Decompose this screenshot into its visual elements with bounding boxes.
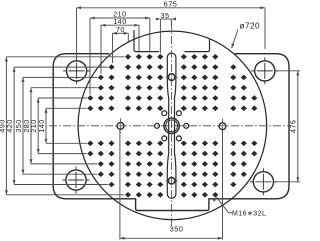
dimension 350 left (23, 77, 97, 174)
dimension 140 top-left (101, 25, 139, 74)
dimension 210 top-left (90, 18, 150, 95)
dimension 420 left (14, 67, 108, 184)
svg-text:ø720: ø720 (240, 22, 260, 31)
dimension 675 top (77, 8, 266, 62)
platen plate outline (rounded rectangle with bottom step, top trimmed by circle) (53, 54, 289, 211)
svg-text:675: 675 (164, 0, 178, 9)
label dia 720 with leader (232, 30, 238, 49)
dimension 490 left (6, 57, 124, 195)
top slot hole (168, 74, 175, 81)
dimension 280 left (31, 88, 97, 164)
tapped holes M16 - inner-left block (125, 54, 163, 198)
bolt circle holes around locating ring (155, 111, 189, 141)
dimension 210 left (38, 98, 86, 154)
svg-text:475: 475 (289, 120, 298, 133)
tapped holes M16 - outer-right block (230, 64, 257, 187)
dimension 70 top-left (113, 33, 129, 63)
tie-bar hole top-left (63, 57, 90, 84)
horizontal centerline (49, 125, 291, 127)
tie-bar hole bottom-right (250, 168, 277, 195)
svg-text:35: 35 (161, 11, 170, 20)
locating ring (inner) (166, 120, 178, 132)
top ejector slot (keyhole) (167, 53, 176, 174)
mid-side hole left (117, 118, 124, 133)
bottom slot hole (168, 178, 175, 185)
dimension 35 top-center (160, 19, 171, 54)
mid-side hole right (219, 119, 226, 134)
tie-bar hole bottom-left (63, 167, 90, 194)
bottom ejector slot (keyhole) (167, 174, 176, 199)
svg-text:M16∗32L: M16∗32L (232, 210, 266, 217)
dimension 140 left (46, 108, 87, 143)
tie-bar hole top-right (251, 57, 278, 84)
dimension 475 right (274, 71, 301, 182)
vertical centerline (171, 22, 173, 229)
locating ring (outer) (164, 118, 179, 133)
tapped holes M16 - outer-left block (87, 64, 114, 187)
tapped holes M16 - inner-right block (181, 54, 219, 198)
svg-text:140: 140 (37, 119, 46, 132)
svg-text:70: 70 (116, 25, 125, 34)
raised boss ledge left of top slot (134, 30, 159, 52)
dimension 350 bottom (120, 130, 223, 240)
label M16x32L with leader (217, 197, 229, 213)
mold space circle dia 720 (78, 31, 267, 220)
raised boss ledge right of top slot (185, 38, 210, 51)
svg-text:420: 420 (5, 119, 14, 132)
svg-text:350: 350 (170, 225, 184, 234)
